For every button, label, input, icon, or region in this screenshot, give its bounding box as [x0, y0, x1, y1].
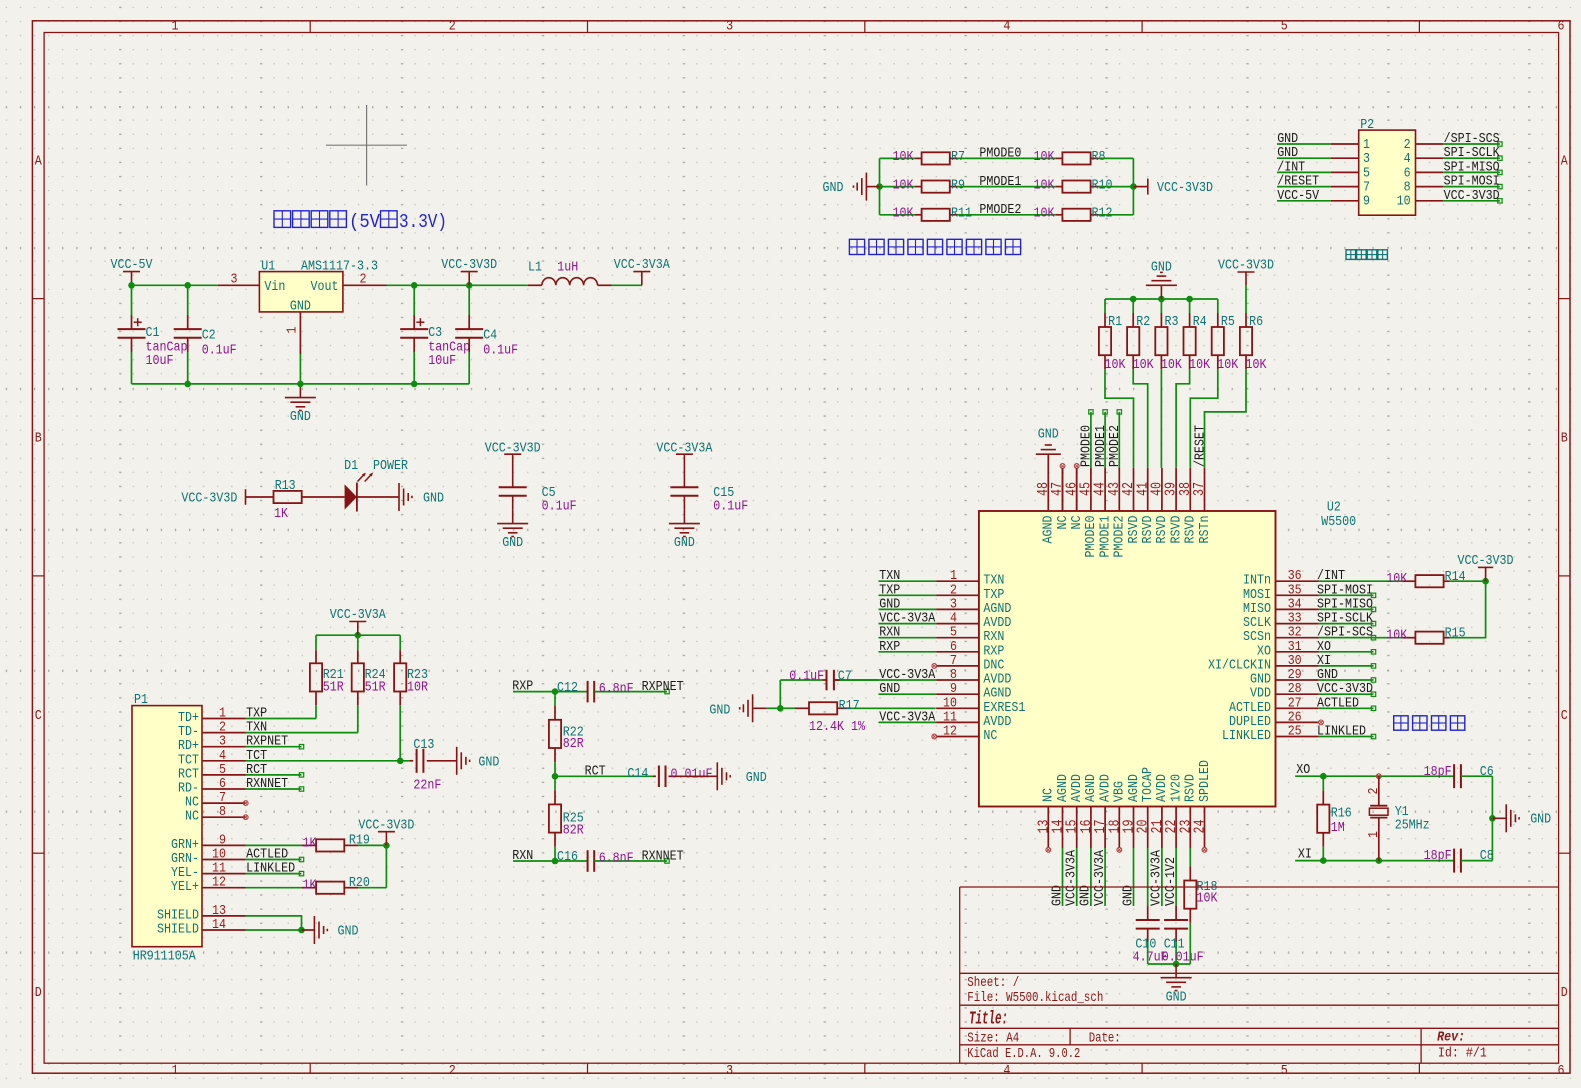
svg-text:10K: 10K	[1386, 571, 1407, 587]
svg-text:VCC-3V3D: VCC-3V3D	[181, 491, 237, 507]
svg-text:GND: GND	[1530, 812, 1551, 828]
svg-text:10K: 10K	[1246, 357, 1267, 373]
svg-text:1: 1	[172, 1063, 179, 1079]
svg-text:3: 3	[726, 1063, 733, 1079]
svg-text:R9: R9	[951, 177, 965, 193]
svg-text:10K: 10K	[1034, 206, 1055, 222]
svg-text:VCC-3V3A: VCC-3V3A	[879, 709, 935, 725]
svg-text:10K: 10K	[1105, 357, 1126, 373]
svg-text:SHIELD: SHIELD	[157, 922, 199, 938]
svg-text:8: 8	[219, 804, 226, 820]
svg-text:GND: GND	[1151, 260, 1172, 276]
svg-text:0.1uF: 0.1uF	[789, 669, 824, 685]
svg-text:D: D	[35, 985, 42, 1001]
svg-text:PMODE2: PMODE2	[1107, 425, 1123, 467]
svg-text:D: D	[1561, 985, 1568, 1001]
svg-text:12.4K 1%: 12.4K 1%	[809, 719, 865, 735]
svg-text:GND: GND	[1166, 989, 1187, 1005]
svg-text:10K: 10K	[893, 177, 914, 193]
svg-text:C13: C13	[413, 737, 434, 753]
svg-text:KiCad E.D.A. 9.0.2: KiCad E.D.A. 9.0.2	[967, 1046, 1080, 1062]
svg-text:LINKLED: LINKLED	[246, 861, 295, 877]
svg-text:U1: U1	[261, 258, 275, 274]
svg-text:RXPNET: RXPNET	[642, 679, 684, 695]
svg-text:0.1uF: 0.1uF	[713, 499, 748, 515]
svg-text:Vout: Vout	[311, 279, 339, 295]
svg-text:1: 1	[1366, 831, 1382, 838]
svg-text:0.1uF: 0.1uF	[542, 499, 577, 515]
svg-text:10uF: 10uF	[428, 353, 456, 369]
svg-text:R3: R3	[1165, 314, 1179, 330]
svg-text:R20: R20	[349, 875, 370, 891]
svg-text:2: 2	[449, 19, 456, 35]
svg-text:R1: R1	[1108, 314, 1122, 330]
svg-text:10K: 10K	[1034, 149, 1055, 165]
svg-text:R10: R10	[1092, 177, 1113, 193]
svg-text:37: 37	[1191, 482, 1208, 496]
svg-text:C14: C14	[627, 766, 648, 782]
svg-text:2: 2	[1366, 788, 1382, 795]
svg-text:RXNNET: RXNNET	[642, 849, 684, 865]
svg-text:R15: R15	[1445, 626, 1466, 642]
svg-text:GND: GND	[290, 409, 311, 425]
svg-text:6: 6	[1558, 1063, 1565, 1079]
svg-text:P2: P2	[1360, 117, 1374, 133]
svg-text:51R: 51R	[323, 680, 344, 696]
svg-text:RSTn: RSTn	[1197, 516, 1213, 544]
svg-text:10K: 10K	[1189, 357, 1210, 373]
svg-text:R11: R11	[951, 206, 972, 222]
svg-text:12: 12	[943, 724, 957, 740]
svg-text:R19: R19	[349, 833, 370, 849]
svg-text:10K: 10K	[893, 206, 914, 222]
svg-text:10K: 10K	[1386, 628, 1407, 644]
svg-text:GND: GND	[674, 535, 695, 551]
svg-text:1K: 1K	[303, 878, 317, 894]
svg-text:10K: 10K	[1133, 357, 1154, 373]
svg-text:82R: 82R	[563, 736, 584, 752]
svg-text:C4: C4	[483, 327, 497, 343]
svg-text:0.1uF: 0.1uF	[202, 342, 237, 358]
svg-text:W5500: W5500	[1321, 514, 1356, 530]
svg-text:GND: GND	[502, 535, 523, 551]
svg-text:Size: A4: Size: A4	[967, 1031, 1019, 1047]
svg-text:3: 3	[231, 272, 238, 288]
svg-text:10K: 10K	[1197, 890, 1218, 906]
svg-text:R4: R4	[1193, 314, 1207, 330]
svg-text:2: 2	[449, 1063, 456, 1079]
svg-text:51R: 51R	[365, 680, 386, 696]
svg-text:25: 25	[1288, 724, 1302, 740]
svg-text:C2: C2	[202, 327, 216, 343]
svg-text:1: 1	[285, 327, 301, 334]
svg-text:GND: GND	[1120, 885, 1136, 906]
svg-text:C: C	[1561, 708, 1568, 724]
svg-text:VCC-3V3A: VCC-3V3A	[614, 257, 670, 273]
svg-text:R6: R6	[1249, 314, 1263, 330]
svg-text:4: 4	[1003, 19, 1010, 35]
svg-text:GND: GND	[338, 924, 359, 940]
svg-text:1: 1	[172, 19, 179, 35]
svg-text:10K: 10K	[893, 149, 914, 165]
svg-text:NC: NC	[983, 728, 997, 744]
svg-text:0.1uF: 0.1uF	[483, 342, 518, 358]
svg-text:A: A	[35, 153, 42, 169]
svg-text:A: A	[1561, 153, 1568, 169]
svg-text:NC: NC	[185, 809, 199, 825]
svg-text:RXP: RXP	[879, 639, 900, 655]
svg-text:1uH: 1uH	[557, 259, 578, 275]
svg-text:VCC-3V3D: VCC-3V3D	[441, 257, 497, 273]
svg-text:4: 4	[1003, 1063, 1010, 1079]
svg-text:VCC-3V3A: VCC-3V3A	[1092, 850, 1108, 906]
svg-text:10: 10	[1397, 194, 1411, 210]
svg-text:/RESET: /RESET	[1192, 425, 1208, 467]
svg-text:/INT: /INT	[1317, 568, 1345, 584]
svg-text:6.8nF: 6.8nF	[599, 681, 634, 697]
svg-text:GND: GND	[746, 770, 767, 786]
svg-text:14: 14	[212, 917, 226, 933]
svg-text:9: 9	[1363, 194, 1370, 210]
svg-text:GND: GND	[823, 180, 844, 196]
svg-text:HR911105A: HR911105A	[133, 949, 196, 965]
svg-text:Vin: Vin	[264, 279, 285, 295]
svg-text:POWER: POWER	[373, 458, 408, 474]
svg-text:Title:: Title:	[969, 1009, 1008, 1029]
svg-text:YEL+: YEL+	[171, 879, 199, 895]
svg-text:18pF: 18pF	[1424, 764, 1452, 780]
svg-text:22nF: 22nF	[413, 778, 441, 794]
svg-text:D1: D1	[344, 458, 358, 474]
svg-text:VCC-1V2: VCC-1V2	[1163, 857, 1179, 906]
svg-text:VCC-3V3D: VCC-3V3D	[1458, 553, 1514, 569]
svg-text:R2: R2	[1136, 314, 1150, 330]
svg-text:12: 12	[212, 875, 226, 891]
svg-text:LINKLED: LINKLED	[1222, 728, 1271, 744]
svg-text:C12: C12	[557, 680, 578, 696]
svg-text:C7: C7	[838, 669, 852, 685]
svg-text:Id: #/1: Id: #/1	[1438, 1046, 1487, 1062]
svg-text:VCC-3V3D: VCC-3V3D	[1444, 188, 1500, 204]
svg-text:10K: 10K	[1161, 357, 1182, 373]
svg-text:VCC-3V3D: VCC-3V3D	[1218, 258, 1274, 274]
svg-text:GND: GND	[879, 681, 900, 697]
svg-text:6: 6	[1558, 19, 1565, 35]
svg-text:GND: GND	[1038, 427, 1059, 443]
svg-text:VCC-3V3D: VCC-3V3D	[1157, 180, 1213, 196]
svg-text:R13: R13	[275, 478, 296, 494]
svg-text:R5: R5	[1221, 314, 1235, 330]
svg-text:3: 3	[726, 19, 733, 35]
svg-text:1K: 1K	[274, 506, 288, 522]
svg-text:VCC-3V3D: VCC-3V3D	[358, 817, 414, 833]
svg-text:Rev:: Rev:	[1437, 1030, 1465, 1046]
svg-text:GND: GND	[709, 702, 730, 718]
svg-text:10R: 10R	[407, 680, 428, 696]
svg-text:10K: 10K	[1217, 357, 1238, 373]
svg-text:3.3V): 3.3V)	[399, 211, 447, 233]
svg-text:B: B	[35, 431, 42, 447]
svg-text:B: B	[1561, 431, 1568, 447]
svg-text:5: 5	[1281, 19, 1288, 35]
svg-text:0.01uF: 0.01uF	[671, 766, 713, 782]
svg-text:(5V: (5V	[349, 211, 381, 233]
svg-text:25MHz: 25MHz	[1395, 817, 1430, 833]
svg-text:VCC-5V: VCC-5V	[111, 257, 153, 273]
svg-text:6.8nF: 6.8nF	[599, 850, 634, 866]
svg-text:Date:: Date:	[1089, 1031, 1121, 1047]
svg-text:SPDLED: SPDLED	[1197, 760, 1213, 802]
svg-text:Sheet: /: Sheet: /	[967, 975, 1019, 991]
svg-text:10uF: 10uF	[146, 353, 174, 369]
svg-text:10K: 10K	[1034, 177, 1055, 193]
svg-text:File: W5500.kicad_sch: File: W5500.kicad_sch	[967, 990, 1103, 1006]
svg-text:5: 5	[1281, 1063, 1288, 1079]
svg-text:VCC-5V: VCC-5V	[1277, 188, 1319, 204]
svg-text:2: 2	[360, 272, 367, 288]
svg-text:P1: P1	[134, 692, 148, 708]
svg-text:R17: R17	[839, 698, 860, 714]
svg-text:24: 24	[1192, 820, 1209, 834]
svg-text:L1: L1	[528, 259, 542, 275]
svg-text:82R: 82R	[563, 823, 584, 839]
svg-text:R7: R7	[951, 149, 965, 165]
svg-text:18pF: 18pF	[1424, 848, 1452, 864]
svg-text:1M: 1M	[1331, 820, 1345, 836]
svg-text:R8: R8	[1092, 149, 1106, 165]
svg-text:R12: R12	[1092, 206, 1113, 222]
svg-text:RXNNET: RXNNET	[246, 776, 288, 792]
svg-text:C: C	[35, 708, 42, 724]
svg-text:GND: GND	[423, 491, 444, 507]
svg-text:R14: R14	[1445, 569, 1466, 585]
svg-text:0.01uF: 0.01uF	[1162, 949, 1204, 965]
svg-text:GND: GND	[478, 754, 499, 770]
svg-text:1K: 1K	[303, 835, 317, 851]
svg-text:VCC-3V3A: VCC-3V3A	[330, 607, 386, 623]
svg-text:C16: C16	[557, 849, 578, 865]
